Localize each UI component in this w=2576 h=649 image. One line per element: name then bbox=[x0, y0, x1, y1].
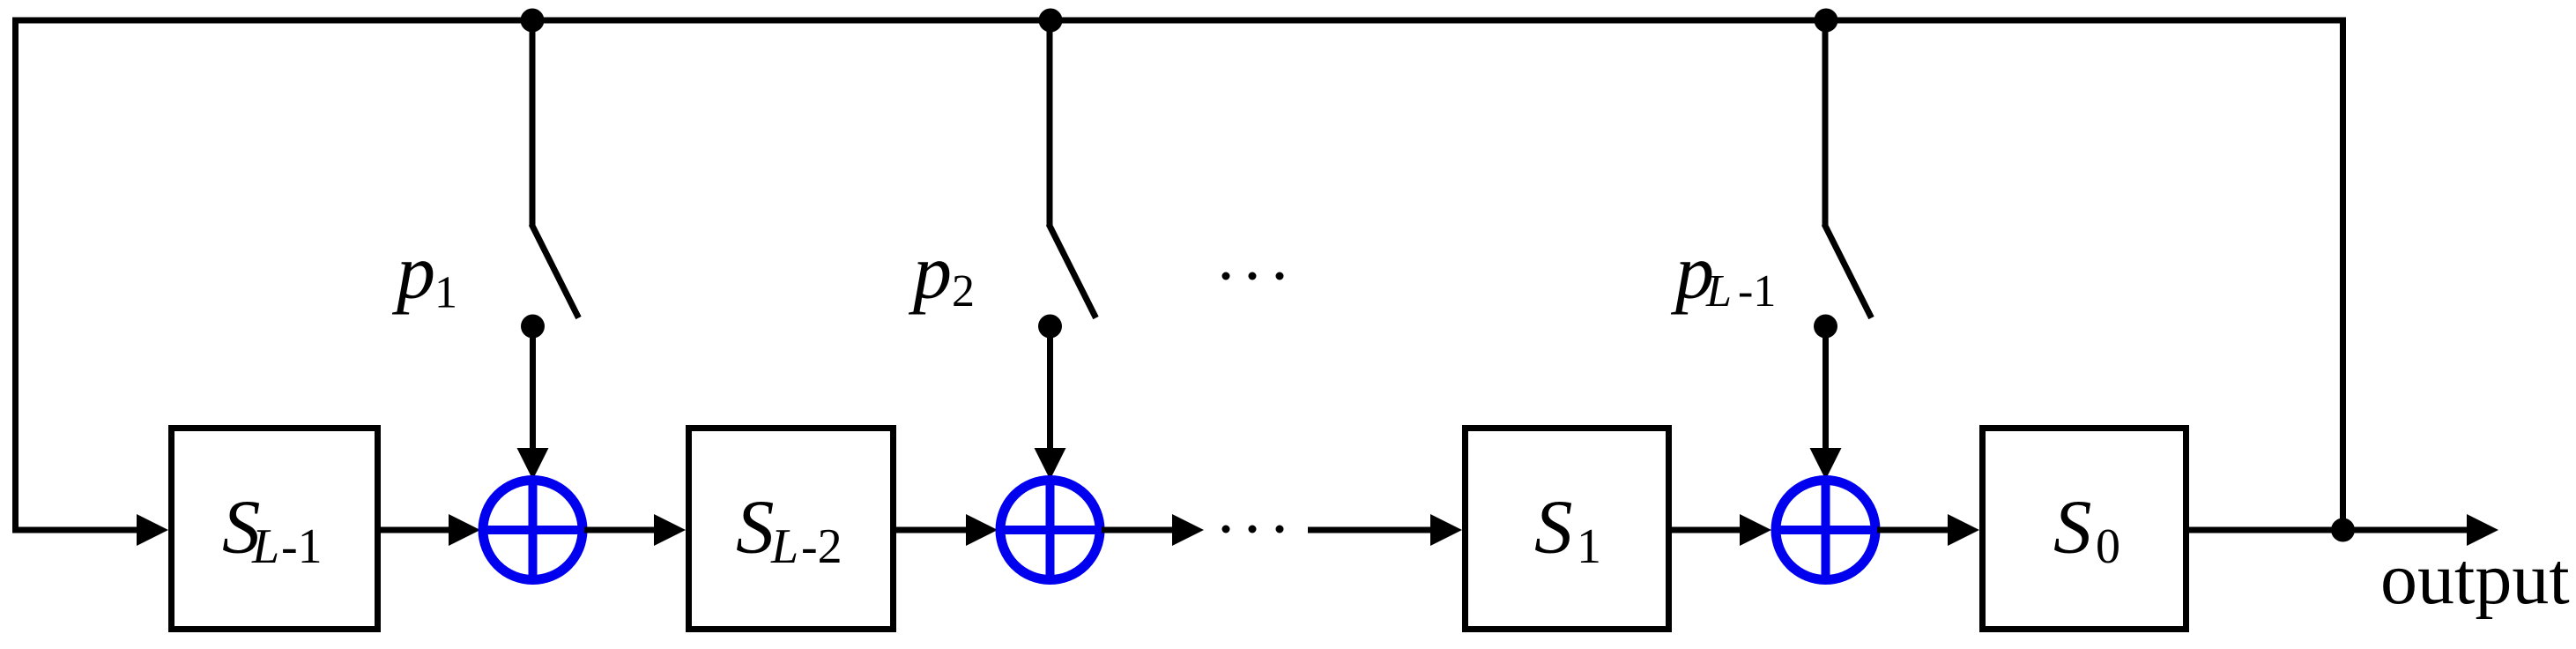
arrowhead into register SL-1 bbox=[137, 514, 168, 546]
wire: XOR X3 to register S0 bbox=[1877, 527, 1950, 533]
svg-text:output: output bbox=[2380, 538, 2570, 620]
wire: SW2 contact to XOR X2 bbox=[1047, 326, 1053, 450]
wire: feedback bus (left vertical, top horizontal, right vertical) bbox=[16, 20, 2343, 533]
node: junction dot J3 on top bus above pL-1 switch bbox=[1815, 9, 1838, 33]
arrowhead into register S0 bbox=[1948, 514, 1979, 546]
wire: SW1 contact to XOR X1 bbox=[530, 326, 536, 450]
arrowhead into XOR X1 left bbox=[449, 514, 480, 546]
svg-text:p: p bbox=[391, 230, 435, 316]
register SL-2 box bbox=[689, 429, 894, 630]
ellipsis dots between SW2 and SW3 bbox=[1222, 272, 1284, 280]
switch SW1 upper lead wire bbox=[530, 22, 536, 226]
node: junction dot J1 on top bus above p1 switch bbox=[521, 9, 545, 33]
wire: XOR X1 to register SL-2 bbox=[584, 527, 657, 533]
node: junction dot J4 on output line bbox=[2331, 518, 2355, 542]
register S1 box bbox=[1466, 429, 1669, 630]
wire: XOR X2 toward ellipsis bbox=[1102, 527, 1175, 533]
svg-text:S: S bbox=[1534, 484, 1573, 570]
switch SW3 open blade bbox=[1824, 224, 1872, 318]
wire: register SL-1 to XOR X1 bbox=[381, 527, 451, 533]
svg-text:-2: -2 bbox=[801, 519, 843, 574]
svg-text:L: L bbox=[251, 519, 279, 574]
register SL-1 box bbox=[172, 429, 378, 630]
svg-text:S: S bbox=[736, 484, 775, 570]
arrowhead into register S1 bbox=[1430, 514, 1462, 546]
XOR gate X3 bbox=[1772, 477, 1879, 584]
node: junction dot J2 on top bus above p2 switch bbox=[1039, 9, 1063, 33]
wire: register SL-2 to XOR X2 bbox=[896, 527, 969, 533]
wire: ellipsis to register S1 bbox=[1308, 527, 1433, 533]
switch SW2 open blade bbox=[1049, 224, 1096, 318]
svg-text:1: 1 bbox=[434, 268, 457, 318]
arrowhead into XOR X3 top bbox=[1810, 448, 1842, 480]
switch SW2 lower contact dot bbox=[1038, 315, 1062, 339]
svg-text:0: 0 bbox=[2096, 519, 2120, 574]
arrowhead into XOR X2 left bbox=[966, 514, 998, 546]
switch SW3 upper lead wire bbox=[1823, 22, 1829, 226]
arrowhead into XOR X3 left bbox=[1740, 514, 1771, 546]
arrowhead after XOR X2 bbox=[1172, 514, 1204, 546]
svg-text:L: L bbox=[770, 519, 798, 574]
svg-text:-1: -1 bbox=[1738, 266, 1776, 317]
wire: input into register SL-1 bbox=[12, 527, 139, 533]
switch SW1 lower contact dot bbox=[521, 315, 545, 339]
ellipsis dots on signal path bbox=[1222, 526, 1284, 533]
svg-text:S: S bbox=[2053, 484, 2092, 570]
svg-text:-1: -1 bbox=[281, 519, 323, 574]
XOR gate X1 bbox=[479, 477, 586, 584]
wire: register S0 to output bbox=[2189, 527, 2469, 533]
svg-text:L: L bbox=[1705, 266, 1732, 317]
wire: register S1 to XOR X3 bbox=[1672, 527, 1742, 533]
svg-text:1: 1 bbox=[1577, 519, 1601, 574]
svg-text:2: 2 bbox=[952, 266, 975, 317]
XOR gate X2 bbox=[997, 477, 1103, 584]
arrowhead into XOR X1 top bbox=[517, 448, 549, 480]
register S0 box bbox=[1983, 429, 2186, 630]
switch SW3 lower contact dot bbox=[1814, 315, 1837, 339]
switch SW2 upper lead wire bbox=[1047, 22, 1053, 226]
arrowhead output bbox=[2467, 514, 2498, 546]
arrowhead into XOR X2 top bbox=[1035, 448, 1066, 480]
switch SW1 open blade bbox=[531, 224, 579, 318]
arrowhead into register SL-2 bbox=[654, 514, 686, 546]
wire: SW3 contact to XOR X3 bbox=[1823, 326, 1829, 450]
svg-text:p: p bbox=[908, 230, 952, 316]
